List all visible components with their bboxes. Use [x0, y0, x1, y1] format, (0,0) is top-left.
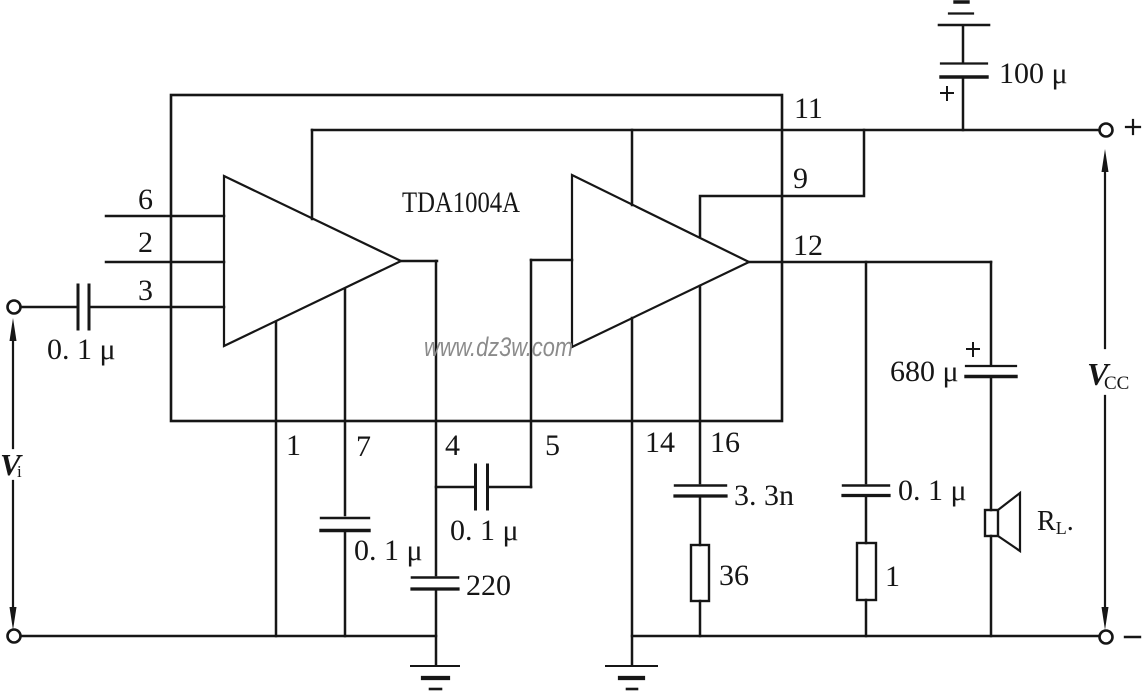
svg-text:3. 3n: 3. 3n: [734, 479, 794, 512]
capacitor C12 0.1u on branch: [843, 486, 889, 496]
Vi arrowhead up: [10, 318, 17, 341]
ground symbol left: [411, 666, 459, 689]
Vcc measure arrow line lower: [1104, 396, 1106, 616]
ground symbol top right: [939, 2, 989, 25]
Vcc measure arrow line upper: [1104, 163, 1106, 348]
wire pin14 upper segment from Vcc rail: [631, 130, 634, 205]
wire pin12 output from A2 apex: [749, 261, 991, 264]
svg-text:1: 1: [885, 560, 900, 593]
svg-text:100 μ: 100 μ: [999, 57, 1068, 90]
wire capacitor C45 to pin5: [489, 486, 531, 489]
wire speaker to ground rail: [990, 536, 993, 636]
svg-text:5: 5: [545, 429, 560, 462]
svg-text:9: 9: [793, 162, 808, 195]
Vcc arrowhead up: [1102, 149, 1109, 172]
svg-text:2: 2: [138, 226, 153, 259]
wire pin5 stub to A2 input: [531, 259, 572, 262]
svg-text:www.dz3w.com: www.dz3w.com: [424, 332, 573, 362]
wire A1 output to pin4 corner: [401, 260, 437, 263]
wire pin5 vertical: [530, 260, 533, 487]
wire coupling pin4 to capacitor C45: [436, 486, 474, 489]
minus sign at bottom right terminal: [1125, 636, 1140, 638]
wire branch x866 from pin12 down: [865, 262, 868, 483]
Vcc top terminal circle: [1100, 124, 1113, 137]
svg-text:1: 1: [286, 429, 301, 462]
wire C16 to resistor R36: [699, 497, 702, 545]
wire speaker branch upper: [990, 262, 993, 364]
ground symbol right: [606, 666, 657, 689]
wire pin2 input stub: [106, 261, 224, 264]
capacitor C7 0.1u on pin7: [321, 518, 369, 531]
svg-text:12: 12: [793, 229, 823, 262]
op-amp A1 (first amplifier triangle): [224, 176, 401, 346]
svg-text:36: 36: [719, 559, 749, 592]
svg-text:0. 1 μ: 0. 1 μ: [47, 333, 116, 366]
svg-text:6: 6: [138, 183, 153, 216]
ground rail left segment: [21, 635, 436, 638]
wire pin1 from A1 to ground rail: [275, 322, 278, 636]
resistor R36 36 ohm: [691, 545, 709, 601]
svg-text:RL.: RL.: [1037, 506, 1074, 538]
inner Vcc rail vertical drop to A1: [311, 130, 314, 219]
wire input to capacitor C1: [21, 306, 76, 309]
capacitor C680 680u electrolytic: [966, 366, 1016, 377]
wire pin7 upper from A1: [344, 289, 347, 515]
capacitor C45 0.1u between pin4 and pin5: [476, 465, 488, 509]
wire pin3 capacitor to op-amp A1: [91, 306, 224, 309]
svg-text:0. 1 μ: 0. 1 μ: [898, 474, 967, 507]
wire R36 to ground rail: [699, 601, 702, 636]
svg-text:TDA1004A: TDA1004A: [402, 186, 520, 219]
Vi measure arrow line lower: [12, 481, 14, 616]
wire C680 to speaker: [990, 378, 993, 510]
plus sign of C100: [941, 87, 953, 100]
wire pin7 lower to ground rail: [344, 532, 347, 636]
capacitor C16 3.3n: [675, 486, 726, 497]
input terminal circle: [8, 301, 21, 314]
op-amp A2 (second amplifier triangle): [572, 175, 749, 347]
wire C100 to Vcc rail: [962, 78, 965, 130]
Vi arrowhead down: [10, 607, 17, 630]
capacitor C100 100u electrolytic: [941, 64, 987, 78]
svg-text:16: 16: [710, 426, 740, 459]
inner Vcc rail horizontal to right terminal: [312, 129, 1099, 132]
Vi measure arrow line upper: [12, 333, 14, 448]
wire R1 to ground rail: [865, 600, 868, 636]
wire pin6 input stub: [106, 215, 224, 218]
svg-text:0. 1 μ: 0. 1 μ: [450, 514, 519, 547]
svg-text:14: 14: [645, 426, 675, 459]
svg-text:0. 1 μ: 0. 1 μ: [354, 534, 423, 567]
wire pin4 to ground symbol: [435, 590, 438, 665]
resistor R1 1 ohm: [857, 543, 876, 600]
Vcc arrowhead down: [1102, 607, 1109, 630]
svg-text:4: 4: [445, 429, 460, 462]
wire C12 to resistor R1: [865, 497, 868, 543]
speaker RL symbol: [985, 493, 1020, 551]
capacitor C4 220 on pin4: [412, 578, 458, 590]
IC boundary box TDA1004A: [171, 95, 782, 421]
svg-text:CC: CC: [1104, 373, 1129, 394]
wire pin9 route from A2 to Vcc rail: [700, 130, 864, 236]
svg-text:i: i: [17, 462, 22, 481]
ground rail right segment: [632, 635, 1099, 638]
plus sign of C680: [967, 343, 979, 356]
bottom right terminal circle: [1100, 631, 1113, 644]
wire ground to C100: [962, 26, 965, 62]
svg-text:7: 7: [356, 430, 371, 463]
svg-text:3: 3: [138, 274, 153, 307]
svg-text:220: 220: [466, 569, 511, 602]
wire pin16 upper from A2: [699, 286, 702, 483]
svg-text:11: 11: [794, 92, 823, 125]
wire pin14 lower segment to ground: [631, 318, 634, 665]
wire pin4 vertical: [435, 261, 438, 575]
capacitor C1 0.1u input coupling: [78, 285, 89, 329]
bottom left terminal circle: [8, 630, 21, 643]
svg-text:680 μ: 680 μ: [890, 355, 959, 388]
plus sign at Vcc terminal: [1126, 120, 1140, 134]
